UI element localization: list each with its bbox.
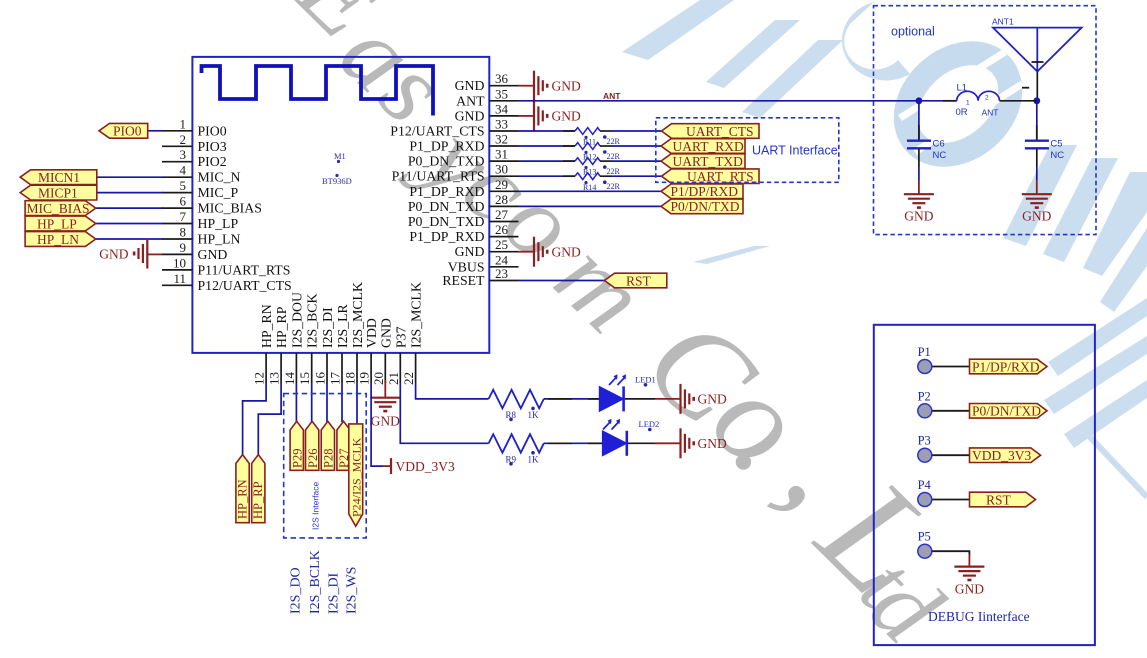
svg-text:P5: P5: [918, 530, 931, 544]
svg-text:19: 19: [357, 372, 372, 385]
ground at LED2: [681, 428, 727, 458]
wire R12 to UART_RXD: [612, 145, 662, 147]
svg-text:P2: P2: [918, 389, 931, 403]
IC bottom pin names (rotated): [259, 282, 424, 348]
resistor R14 22R: [575, 173, 621, 192]
svg-text:P12/UART_CTS: P12/UART_CTS: [198, 278, 292, 293]
svg-text:17: 17: [328, 372, 343, 386]
wire R13 to UART_TXD: [612, 160, 662, 162]
svg-text:P0/DN/TXD: P0/DN/TXD: [671, 199, 740, 214]
svg-text:R9: R9: [506, 454, 517, 464]
svg-text:M1: M1: [334, 151, 346, 161]
svg-text:HP_LN: HP_LN: [198, 232, 241, 247]
svg-text:0R: 0R: [956, 107, 968, 118]
svg-text:P11/UART_RTS: P11/UART_RTS: [392, 169, 485, 184]
svg-text:P1_DP_RXD: P1_DP_RXD: [409, 139, 484, 154]
wire pin29 to P1/DP/RXD: [519, 190, 666, 192]
svg-text:GND: GND: [455, 78, 485, 93]
svg-text:RST: RST: [626, 273, 652, 288]
port P0/DN/TXD (pin28): [661, 199, 743, 214]
dashed box UART Interface: [656, 118, 839, 183]
svg-text:DEBUG Iinterface: DEBUG Iinterface: [928, 609, 1030, 624]
wire ANT net pin35 to optional block: [519, 100, 919, 102]
svg-text:UART Interface: UART Interface: [752, 144, 838, 158]
svg-text:I2S_DI: I2S_DI: [320, 307, 335, 348]
svg-text:MIC_BIAS: MIC_BIAS: [27, 201, 90, 216]
power bar VDD_3V3: [383, 458, 455, 474]
ground at pin 36: [518, 71, 581, 101]
DEBUG box: [874, 325, 1095, 645]
resistor R11 22R: [575, 128, 621, 147]
svg-text:10: 10: [173, 255, 186, 270]
ground below C6: [904, 180, 934, 224]
wires pins14-17 down to I2S ports: [295, 383, 297, 422]
bottom pin numbers 12-22 (rotated): [252, 372, 417, 386]
svg-text:P12/UART_CTS: P12/UART_CTS: [390, 124, 484, 139]
resistor R13 22R: [575, 158, 621, 177]
ground at pin 25: [518, 237, 581, 267]
IC left pin stubs pins 1-11: [162, 131, 192, 285]
port P29 (vertical): [290, 421, 304, 470]
wire pin5 to MICP1 flag: [97, 192, 163, 194]
wire pin6 to MIC_BIAS flag: [96, 207, 163, 209]
testpoint P1: [918, 345, 970, 374]
svg-text:6: 6: [180, 194, 187, 209]
svg-text:P24/I2S_MCLK: P24/I2S_MCLK: [349, 437, 363, 517]
port P28 (vertical): [321, 421, 335, 470]
port UART_RTS: [662, 169, 760, 184]
svg-text:ANT: ANT: [982, 107, 999, 117]
testpoint P4: [918, 478, 970, 507]
ground below C5: [1022, 180, 1052, 224]
svg-text:20: 20: [371, 372, 386, 385]
svg-text:RST: RST: [986, 492, 1012, 507]
wire pin18 down to P24 port: [356, 383, 358, 424]
wire pin30 to R14: [519, 175, 576, 177]
IC bottom pin stubs pins 12-22: [266, 353, 416, 383]
svg-text:2: 2: [985, 95, 989, 102]
svg-text:18: 18: [343, 372, 358, 385]
svg-text:ANT: ANT: [456, 93, 485, 108]
svg-text:1K: 1K: [528, 454, 540, 464]
dashed box optional: [874, 6, 1097, 235]
svg-text:I2S_DI: I2S_DI: [326, 572, 341, 614]
svg-text:P26: P26: [306, 449, 320, 468]
svg-text:P1/DP/RXD: P1/DP/RXD: [972, 359, 1040, 374]
svg-text:22: 22: [401, 372, 416, 385]
svg-text:I2S_WS: I2S_WS: [345, 567, 360, 614]
svg-text:optional: optional: [891, 25, 935, 39]
svg-text:P1/DP/RXD: P1/DP/RXD: [671, 184, 739, 199]
port MICP1: [20, 185, 97, 200]
svg-text:NC: NC: [1050, 150, 1064, 161]
left pin numbers 1-11: [173, 116, 187, 285]
IC left pin names: [198, 123, 292, 292]
svg-text:HP_RP: HP_RP: [274, 306, 289, 348]
capacitor C6 NC: [907, 101, 946, 180]
port MICN1: [20, 170, 97, 185]
svg-text:1: 1: [966, 100, 970, 107]
port P26 (vertical): [306, 421, 320, 470]
svg-text:MICP1: MICP1: [38, 185, 78, 200]
svg-text:GND: GND: [698, 392, 727, 407]
svg-text:GND: GND: [198, 247, 228, 262]
svg-text:GND: GND: [455, 108, 485, 123]
dashed box I2S Interface: [284, 394, 367, 538]
wire pin8 to HP_LN flag: [96, 238, 163, 240]
svg-text:P11/UART_RTS: P11/UART_RTS: [198, 262, 291, 277]
svg-text:26: 26: [495, 222, 509, 237]
svg-text:HP_LN: HP_LN: [37, 232, 79, 247]
svg-text:3: 3: [180, 147, 187, 162]
svg-text:UART_CTS: UART_CTS: [686, 124, 753, 139]
svg-text:UART_RXD: UART_RXD: [673, 139, 744, 154]
svg-text:MIC_N: MIC_N: [198, 170, 241, 185]
svg-text:HP_LP: HP_LP: [198, 216, 239, 231]
svg-text:7: 7: [180, 209, 187, 224]
port MIC_BIAS: [25, 201, 96, 216]
svg-text:GND: GND: [698, 436, 727, 451]
wire pin4 to MICN1 flag: [97, 176, 163, 178]
svg-text:VDD_3V3: VDD_3V3: [972, 448, 1031, 463]
svg-text:MIC_P: MIC_P: [198, 185, 239, 200]
svg-text:25: 25: [495, 237, 508, 252]
svg-text:LED1: LED1: [635, 375, 656, 385]
svg-text:GND: GND: [552, 244, 581, 259]
port UART_CTS: [662, 124, 760, 139]
IC right pin names: [390, 78, 485, 288]
IC antenna squarewave symbol: [202, 66, 434, 116]
svg-text:L1: L1: [957, 83, 968, 94]
svg-text:P1_DP_RXD: P1_DP_RXD: [409, 184, 484, 199]
svg-text:I2S_BCLK: I2S_BCLK: [308, 550, 323, 614]
port P1/DP/RXD (pin29): [661, 184, 743, 199]
ground at pin 9 (rotated left): [99, 239, 162, 269]
wire pin23 to RST: [519, 280, 607, 282]
testpoint P2: [918, 389, 970, 418]
wire pin7 to HP_LP flag: [96, 223, 163, 225]
port RST: [605, 273, 667, 288]
wire pin33 to R11: [519, 130, 576, 132]
ground at pin 20: [370, 380, 400, 429]
svg-text:ANT: ANT: [603, 91, 621, 101]
svg-text:VDD: VDD: [364, 318, 379, 348]
svg-text:GND: GND: [371, 414, 400, 429]
svg-text:P1: P1: [918, 345, 931, 359]
inductor L1 0R: [919, 83, 1037, 118]
svg-text:16: 16: [313, 372, 328, 386]
ground at P5: [954, 554, 984, 597]
port P27 (vertical): [337, 421, 351, 470]
svg-text:ANT1: ANT1: [992, 17, 1014, 27]
port UART_RXD: [661, 139, 745, 154]
wire LED1 to ground: [625, 398, 681, 400]
junction node at C6: [916, 97, 923, 104]
wire pin12 to HP_RN flag: [243, 383, 267, 455]
port RST (debug): [970, 492, 1036, 507]
svg-text:23: 23: [495, 266, 508, 281]
svg-text:HP_RP: HP_RP: [251, 481, 265, 519]
svg-text:P1_DP_RXD: P1_DP_RXD: [409, 229, 484, 244]
svg-text:NC: NC: [933, 150, 947, 161]
testpoint P3: [918, 434, 970, 463]
svg-text:22R: 22R: [607, 182, 621, 191]
svg-text:21: 21: [386, 372, 401, 385]
svg-text:VDD_3V3: VDD_3V3: [396, 459, 455, 474]
port VDD_3V3 (debug): [970, 448, 1041, 463]
svg-text:22R: 22R: [607, 137, 621, 146]
port P0/DN/TXD (debug): [970, 404, 1048, 419]
svg-text:PIO3: PIO3: [198, 139, 227, 154]
svg-text:UART_TXD: UART_TXD: [673, 154, 744, 169]
svg-text:11: 11: [173, 271, 186, 286]
testpoint P5: [918, 530, 970, 559]
svg-text:UART_RTS: UART_RTS: [687, 169, 754, 184]
wire pin1 to PIO0 flag: [148, 130, 163, 132]
svg-text:1: 1: [180, 116, 187, 131]
svg-text:P4: P4: [918, 478, 932, 492]
svg-text:LED2: LED2: [639, 419, 660, 429]
svg-text:MICN1: MICN1: [38, 170, 80, 185]
port P1/DP/RXD (debug): [970, 359, 1048, 374]
wire pin28 to P0/DN/TXD: [519, 205, 666, 207]
svg-text:36: 36: [495, 71, 509, 86]
svg-text:HP_RN: HP_RN: [259, 304, 274, 348]
svg-text:MIC_BIAS: MIC_BIAS: [198, 201, 262, 216]
svg-text:5: 5: [180, 178, 187, 193]
svg-text:22R: 22R: [607, 152, 621, 161]
wire R11 to UART_CTS: [612, 130, 662, 132]
svg-text:I2S_LR: I2S_LR: [335, 304, 350, 348]
port UART_TXD: [661, 154, 745, 169]
resistor R9 1K: [489, 434, 544, 465]
watermark pale blue logo: [622, 0, 1147, 497]
svg-text:I2S_MCLK: I2S_MCLK: [409, 282, 424, 348]
svg-text:P0_DN_TXD: P0_DN_TXD: [408, 154, 485, 169]
svg-text:I2S_BCK: I2S_BCK: [305, 294, 320, 348]
svg-text:PIO2: PIO2: [198, 154, 227, 169]
svg-text:GND: GND: [455, 244, 485, 259]
port HP_LN: [25, 232, 96, 247]
svg-text:P37: P37: [393, 326, 408, 348]
wire R14 to UART_RTS: [612, 175, 662, 177]
svg-text:9: 9: [180, 240, 187, 255]
svg-text:14: 14: [282, 372, 297, 386]
wire LED2 to ground: [628, 442, 681, 444]
svg-text:1K: 1K: [528, 410, 540, 420]
port P24/I2S_MCLK (vertical, point down): [349, 424, 364, 526]
svg-text:HP_RN: HP_RN: [235, 479, 249, 519]
port HP_LP: [25, 216, 96, 231]
svg-text:29: 29: [495, 177, 508, 192]
svg-text:31: 31: [495, 147, 508, 162]
svg-text:GND: GND: [1022, 209, 1051, 224]
svg-text:BT936D: BT936D: [322, 176, 352, 186]
wire pin19 to VDD_3V3: [371, 383, 383, 466]
svg-text:22R: 22R: [607, 167, 621, 176]
svg-text:P0/DN/TXD: P0/DN/TXD: [972, 404, 1041, 419]
svg-text:P0_DN_TXD: P0_DN_TXD: [408, 214, 485, 229]
wire pin22 to R8: [416, 383, 489, 399]
wire pin31 to R13: [519, 160, 576, 162]
svg-text:GND: GND: [99, 246, 128, 261]
svg-text:I2S Interface: I2S Interface: [311, 482, 321, 530]
svg-text:P3: P3: [918, 434, 931, 448]
svg-text:4: 4: [180, 163, 187, 178]
svg-text:R8: R8: [506, 410, 517, 420]
capacitor C5 NC: [1025, 101, 1064, 180]
svg-text:I2S_MCLK: I2S_MCLK: [350, 282, 365, 348]
svg-text:PIO0: PIO0: [198, 123, 227, 138]
ground at LED1: [681, 384, 727, 414]
svg-text:GND: GND: [904, 209, 933, 224]
svg-text:32: 32: [495, 132, 508, 147]
svg-text:30: 30: [495, 162, 508, 177]
svg-text:28: 28: [495, 192, 508, 207]
resistor R8 1K: [489, 390, 544, 421]
svg-text:PIO0: PIO0: [113, 124, 142, 139]
wire R9 to LED2: [544, 442, 603, 444]
port HP_RN (vertical): [235, 455, 249, 523]
svg-text:C6: C6: [933, 139, 945, 150]
IC right pin stubs pins 36-23: [489, 86, 518, 281]
wire R8 to LED1: [544, 398, 600, 400]
svg-text:12: 12: [252, 372, 267, 385]
svg-text:P28: P28: [322, 449, 336, 468]
junction node at C5/antenna: [1033, 97, 1040, 104]
antenna ANT1: [992, 17, 1082, 101]
svg-text:27: 27: [495, 207, 509, 222]
svg-text:13: 13: [267, 372, 282, 385]
port HP_RP (vertical): [251, 455, 265, 523]
resistor R12 22R: [575, 143, 621, 162]
svg-text:35: 35: [495, 86, 508, 101]
port PIO0: [99, 123, 148, 138]
svg-text:P29: P29: [290, 449, 304, 468]
IC designator M1: [322, 151, 352, 186]
svg-text:P0_DN_TXD: P0_DN_TXD: [408, 199, 485, 214]
svg-text:GND: GND: [552, 109, 581, 124]
svg-text:2: 2: [180, 132, 187, 147]
svg-text:HP_LP: HP_LP: [37, 216, 77, 231]
wire pin21 to R9: [400, 383, 488, 443]
svg-text:GND: GND: [955, 582, 984, 597]
svg-text:15: 15: [297, 372, 312, 385]
LED2: [602, 419, 659, 456]
svg-text:GND: GND: [378, 318, 393, 348]
svg-text:RESET: RESET: [442, 273, 485, 288]
svg-text:33: 33: [495, 117, 508, 132]
LED1: [599, 374, 655, 411]
wire pin32 to R12: [519, 145, 576, 147]
right pin numbers 36-23: [495, 71, 509, 281]
svg-text:34: 34: [495, 101, 509, 116]
svg-text:I2S_DO: I2S_DO: [289, 567, 304, 614]
IC M1 body: [192, 57, 489, 353]
svg-text:I2S_DOU: I2S_DOU: [289, 292, 304, 348]
wire pin13 to HP_RP flag: [258, 383, 281, 455]
svg-text:8: 8: [180, 225, 187, 240]
svg-text:GND: GND: [552, 78, 581, 93]
svg-text:C5: C5: [1050, 139, 1062, 150]
ground at pin 34: [518, 101, 581, 131]
